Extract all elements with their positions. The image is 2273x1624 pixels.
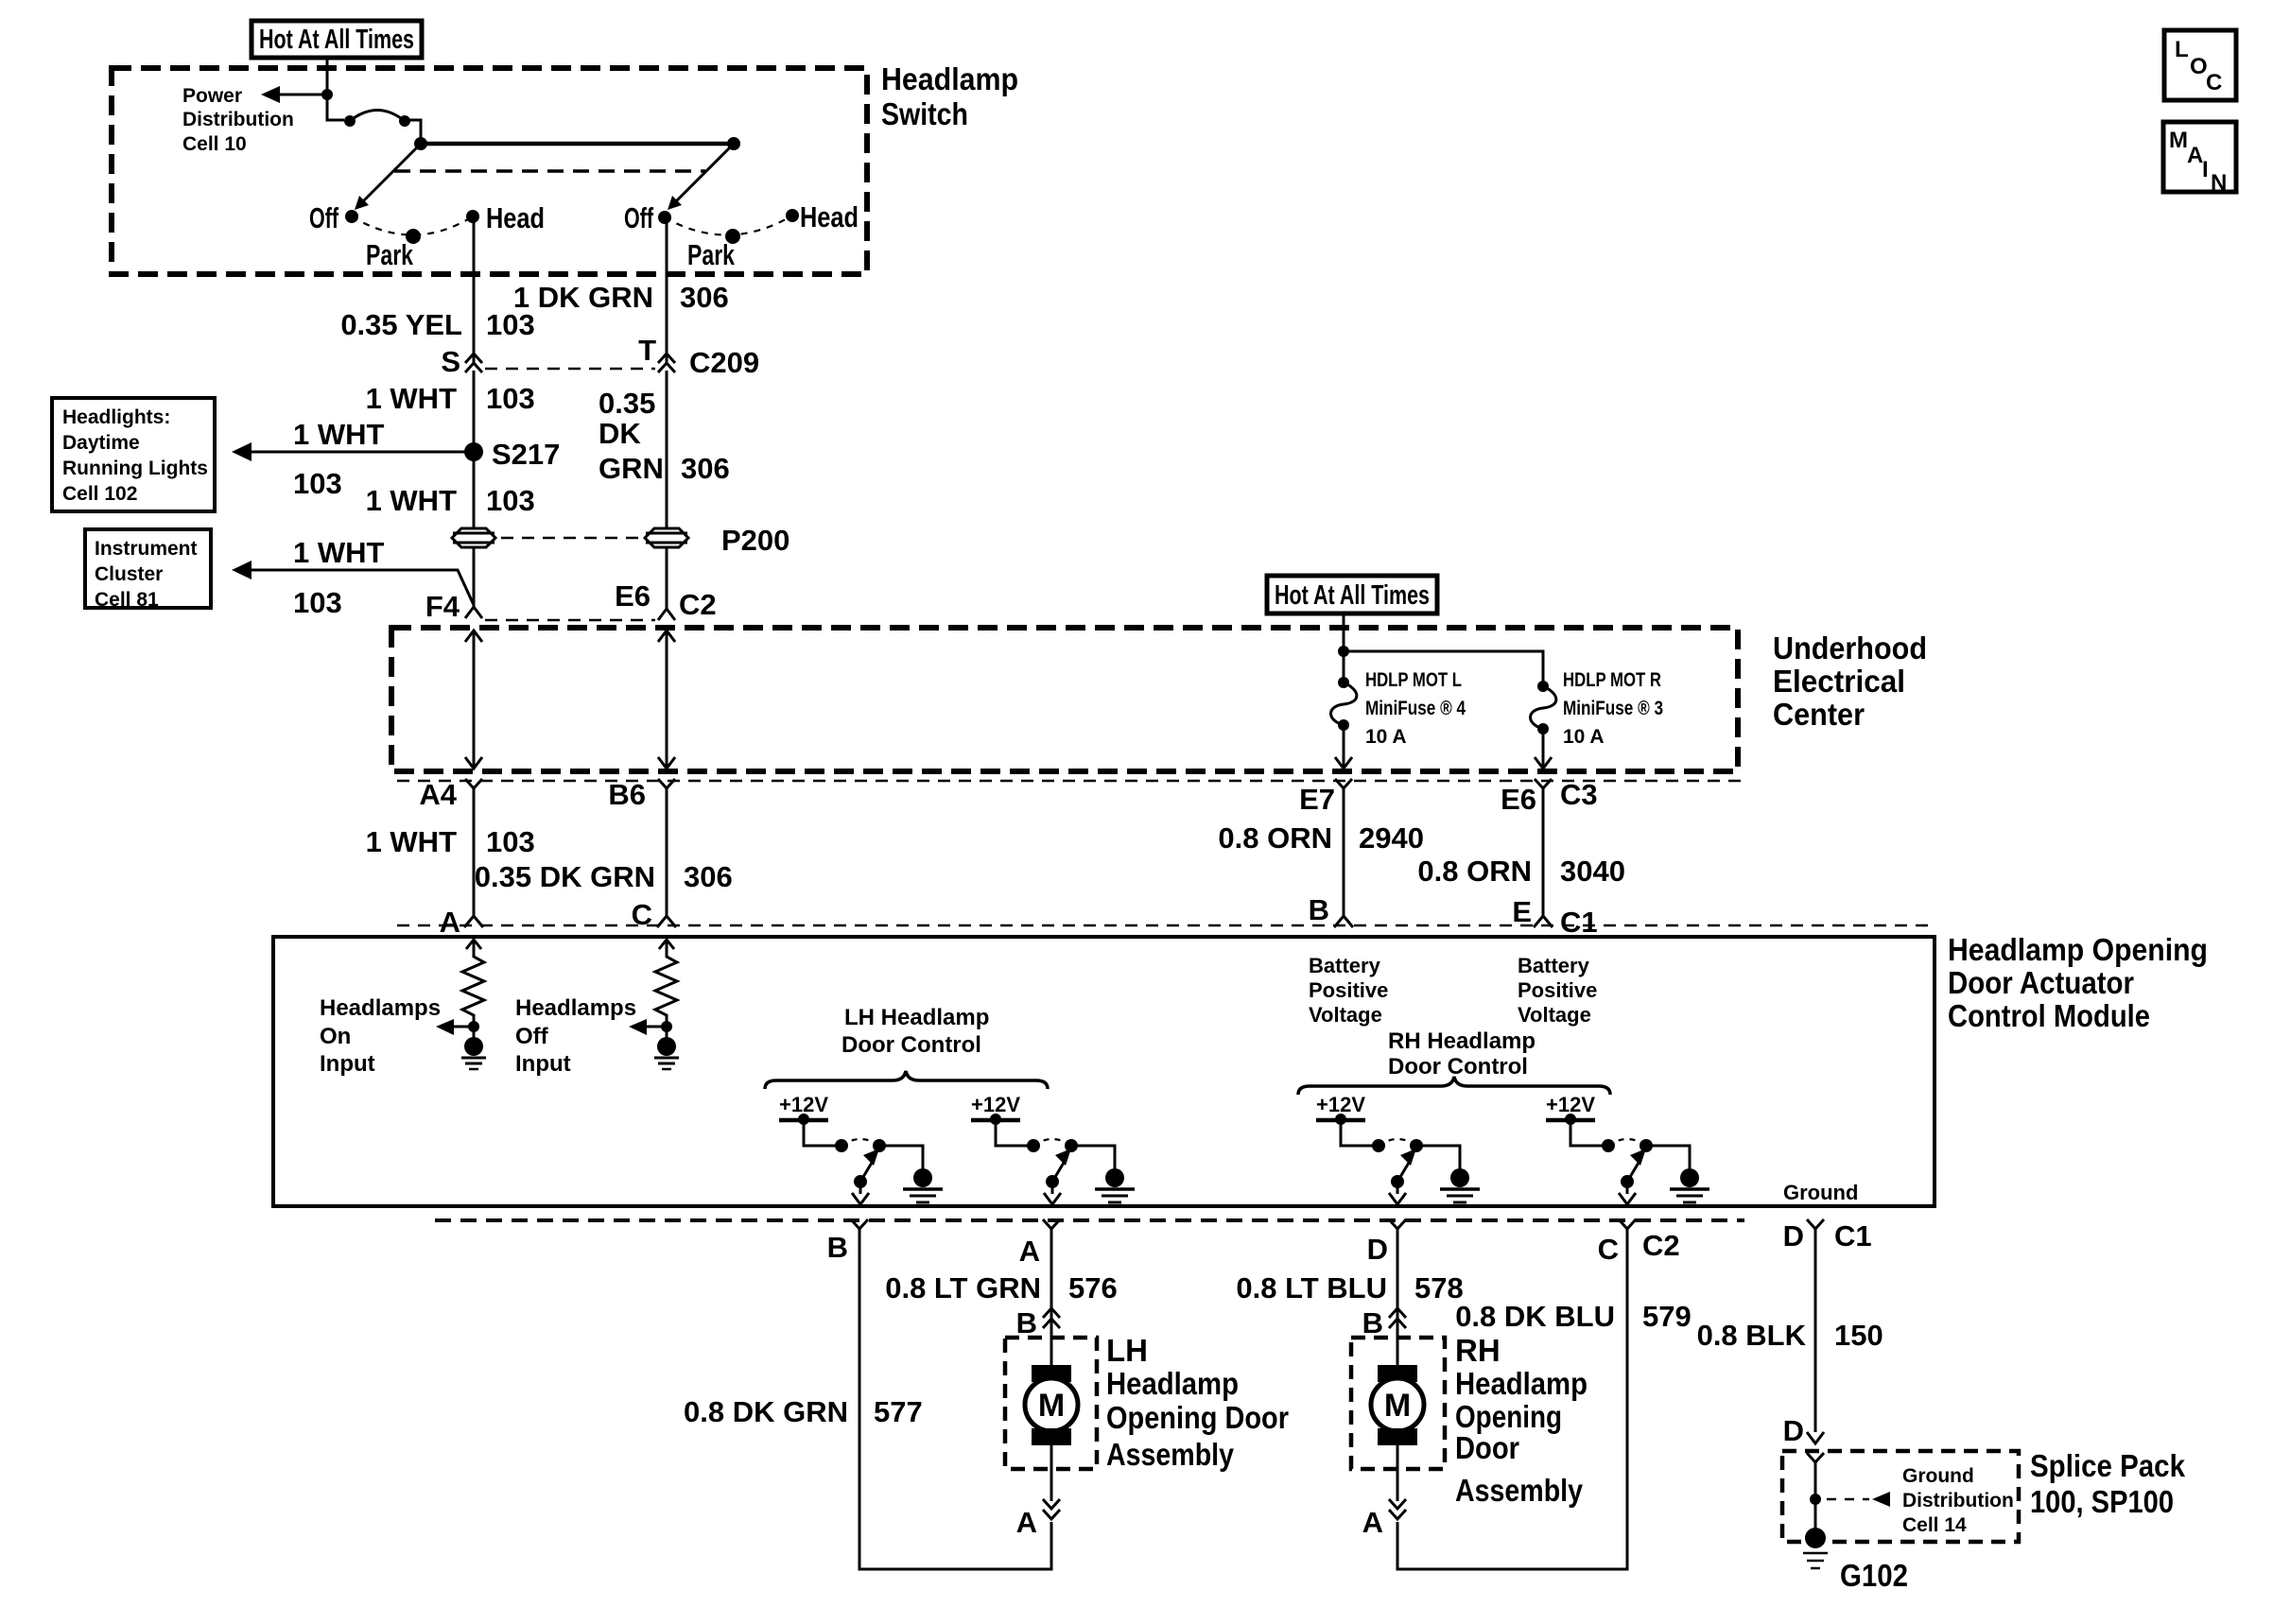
svg-text:+12V: +12V — [971, 1093, 1020, 1116]
svg-text:0.8 ORN: 0.8 ORN — [1417, 855, 1532, 888]
module pin B chevron — [1334, 916, 1353, 927]
svg-text:T: T — [638, 334, 656, 367]
label 0.35 DK GRN 306 (below T) — [599, 387, 730, 485]
svg-text:RH: RH — [1455, 1333, 1501, 1368]
svg-text:1 WHT: 1 WHT — [366, 825, 458, 858]
svg-text:150: 150 — [1834, 1319, 1883, 1352]
svg-text:Splice Pack: Splice Pack — [2030, 1448, 2186, 1483]
svg-text:B: B — [1016, 1306, 1037, 1339]
svg-text:C1: C1 — [1834, 1219, 1872, 1253]
module pin C bottom chevron — [1619, 1219, 1636, 1238]
wire 306 from B6 to module pin C — [666, 799, 668, 917]
svg-text:0.8 ORN: 0.8 ORN — [1218, 821, 1332, 855]
module pin B bottom chevron — [851, 1219, 868, 1238]
svg-text:N: N — [2211, 170, 2227, 196]
label 0.8 DK GRN 577 — [684, 1395, 923, 1428]
underhood electrical center dashed enclosure — [391, 628, 1738, 771]
svg-text:103: 103 — [486, 308, 535, 341]
wire 103 from left switch Head down to connector C209 pin S — [473, 219, 476, 362]
mechanical link dashed line between wipers — [394, 169, 705, 173]
node: splice junction SP100 — [1810, 1494, 1821, 1505]
svg-text:A: A — [1019, 1235, 1040, 1268]
module pin E chevron — [1534, 916, 1553, 927]
svg-text:Voltage: Voltage — [1309, 1003, 1382, 1027]
node: power feed junction — [321, 89, 333, 100]
svg-text:Door Actuator: Door Actuator — [1948, 965, 2134, 1000]
svg-text:Headlamp: Headlamp — [881, 61, 1018, 96]
svg-text:Input: Input — [320, 1051, 375, 1077]
svg-text:LH: LH — [1106, 1333, 1148, 1368]
brace RH door control — [1298, 1077, 1610, 1095]
resistor (headlamps on input pull-up) — [462, 940, 484, 1027]
svg-text:+12V: +12V — [1316, 1093, 1365, 1116]
dashed connector line C209 — [485, 368, 655, 371]
svg-text:A: A — [2187, 143, 2203, 168]
svg-text:Headlights:: Headlights: — [62, 406, 170, 428]
destination box Instrument Cluster Cell 81 — [85, 529, 211, 611]
right switch wiper arm with arrowhead — [668, 144, 734, 210]
svg-text:Headlamp: Headlamp — [1455, 1366, 1588, 1401]
svg-text:P200: P200 — [721, 524, 789, 557]
svg-text:103: 103 — [486, 382, 535, 415]
svg-text:0.35 DK GRN: 0.35 DK GRN — [475, 860, 655, 893]
wire 2940 from E7 to module pin B — [1343, 799, 1345, 917]
dashed arrow to Ground Distribution Cell 14 — [1827, 1492, 1890, 1507]
svg-text:3040: 3040 — [1560, 855, 1625, 888]
svg-text:DK: DK — [599, 417, 641, 450]
label Headlamp Opening Door Actuator Control Module — [1948, 932, 2208, 1033]
wire arrow from S217 to Headlights DRL — [232, 442, 474, 461]
LH motor pin B double chevron — [1043, 1308, 1060, 1328]
page marker box MAIN — [2163, 122, 2236, 196]
wire 306 from right switch Off down to connector C209 pin T — [666, 220, 668, 362]
left switch wiper arm with arrowhead — [355, 144, 421, 210]
wire from Hot At All Times into headlamp switch — [326, 58, 329, 95]
label RH Headlamp Door Control — [1388, 1028, 1536, 1080]
svg-text:103: 103 — [486, 825, 535, 858]
svg-text:C: C — [632, 898, 652, 931]
connector C2 pin F4 chevron — [465, 607, 482, 618]
svg-text:Head: Head — [486, 201, 545, 234]
wire from LH motor bottom to loop — [1050, 1445, 1053, 1501]
label 0.8 DK BLU 579 — [1455, 1300, 1692, 1333]
svg-text:Headlamps: Headlamps — [515, 995, 636, 1021]
resistor (headlamps off input pull-up) — [655, 940, 677, 1027]
motor M (LH headlamp door) — [1025, 1365, 1078, 1445]
wire from RH motor bottom to loop — [1397, 1445, 1399, 1501]
svg-text:0.8 DK GRN: 0.8 DK GRN — [684, 1395, 848, 1428]
module pin A chevron — [464, 916, 483, 927]
svg-text:Hot At All Times: Hot At All Times — [1275, 580, 1430, 611]
connector C3 dashed line — [397, 780, 1749, 783]
svg-text:1 WHT: 1 WHT — [366, 382, 458, 415]
wire arrow Headlamps Off Input — [629, 1019, 667, 1035]
svg-text:Control Module: Control Module — [1948, 998, 2150, 1033]
label Splice Pack 100, SP100 — [2030, 1448, 2186, 1519]
svg-text:579: 579 — [1642, 1300, 1692, 1333]
node: headlamps on input tap — [468, 1021, 479, 1032]
switch contact (closed breaker) of headlamp switch — [344, 111, 410, 128]
fuse HDLP MOT R MiniFuse 3 10A — [1531, 681, 1556, 734]
svg-text:10 A: 10 A — [1563, 726, 1605, 748]
connector C3 pin E6 — [1535, 779, 1552, 799]
wire feed to right fuse — [1344, 651, 1543, 686]
headlamp opening door actuator control module box — [273, 937, 1935, 1206]
svg-text:Opening Door: Opening Door — [1106, 1400, 1289, 1435]
pass-through grommet P200 (right, circuit 306) — [645, 528, 688, 547]
svg-text:306: 306 — [681, 452, 730, 485]
page marker box LOC — [2164, 30, 2236, 100]
module pin C entry arrow — [659, 940, 674, 949]
svg-text:Positive: Positive — [1309, 978, 1388, 1002]
svg-text:HDLP MOT L: HDLP MOT L — [1365, 669, 1462, 691]
svg-text:Distribution: Distribution — [1902, 1490, 2014, 1512]
connector C2 pin E6 chevron — [658, 609, 675, 620]
svg-text:On: On — [320, 1024, 351, 1049]
module pin D ground bottom chevron — [1807, 1219, 1824, 1238]
splice S217 — [464, 442, 483, 461]
svg-text:M: M — [1038, 1388, 1065, 1424]
svg-text:C2: C2 — [679, 588, 717, 621]
svg-text:Input: Input — [515, 1051, 571, 1077]
svg-text:Instrument: Instrument — [95, 538, 198, 560]
wire from Hot At All Times into UEC — [1343, 613, 1345, 682]
label LH Headlamp Door Control — [842, 1005, 989, 1058]
fuse HDLP MOT L MiniFuse 4 10A — [1331, 677, 1357, 731]
svg-text:Battery: Battery — [1309, 954, 1381, 977]
node: fuse feed junction — [1338, 646, 1349, 657]
svg-text:Center: Center — [1773, 697, 1865, 732]
svg-text:A: A — [440, 906, 460, 939]
svg-text:C: C — [2206, 70, 2222, 95]
svg-text:576: 576 — [1068, 1271, 1118, 1304]
bus wire between left and right wiper feeds — [421, 142, 734, 147]
node: left wiper feed — [414, 137, 427, 150]
wire 103 through UEC with entry/exit arrows — [465, 631, 482, 769]
svg-text:1 WHT: 1 WHT — [293, 418, 385, 451]
label Headlamps On Input — [320, 995, 441, 1077]
connector C209 pin T double chevron — [658, 354, 675, 372]
svg-text:Door Control: Door Control — [842, 1032, 981, 1058]
svg-text:E6: E6 — [1501, 783, 1536, 816]
svg-text:Ground: Ground — [1902, 1465, 1974, 1487]
RH headlamp opening door assembly dashed box — [1351, 1338, 1445, 1469]
label RH Headlamp Opening Door Assembly — [1455, 1333, 1588, 1508]
svg-text:Positive: Positive — [1518, 978, 1597, 1002]
headlamp switch dashed enclosure — [112, 68, 867, 274]
dashed connector line C2 — [485, 619, 655, 622]
right switch contact Head — [786, 209, 799, 222]
wire 577 from module pin B down and around to LH motor pin A — [859, 1238, 1051, 1569]
svg-text:Distribution: Distribution — [182, 109, 294, 130]
wire from junction to switch contact — [327, 95, 344, 120]
svg-text:D: D — [1783, 1414, 1804, 1447]
svg-text:Running Lights: Running Lights — [62, 458, 208, 479]
label Battery Positive Voltage (pin B) — [1309, 954, 1388, 1027]
RH door driver 2 (+12V switch, output C) — [1546, 1093, 1709, 1204]
node: headlamps off input tap — [661, 1021, 672, 1032]
power source box "Hot At All Times" (left) — [252, 21, 422, 58]
svg-text:E6: E6 — [615, 579, 651, 613]
wire 576 from module pin A down to LH motor pin B — [1050, 1238, 1053, 1365]
wire from S217 to P200 — [473, 452, 476, 527]
LH door driver 1 (+12V switch, output B) — [779, 1093, 943, 1204]
wire arrow Headlamps On Input — [436, 1019, 474, 1035]
label Headlamp Switch — [881, 61, 1018, 131]
RH motor pin A double chevron — [1389, 1499, 1406, 1519]
svg-text:Door: Door — [1455, 1430, 1519, 1465]
svg-text:Opening: Opening — [1455, 1399, 1562, 1434]
svg-text:Off: Off — [309, 201, 338, 234]
dashed throw arc of left switch — [352, 216, 473, 235]
svg-text:Voltage: Voltage — [1518, 1003, 1591, 1027]
svg-text:1 WHT: 1 WHT — [366, 484, 458, 517]
wire 579 from module pin C down and around to RH motor pin A — [1397, 1238, 1627, 1569]
svg-text:2940: 2940 — [1359, 821, 1424, 855]
label Battery Positive Voltage (pin E) — [1518, 954, 1597, 1027]
module pin A entry arrow — [466, 940, 481, 949]
wire 306 from T down to P200 — [666, 371, 668, 528]
LH headlamp opening door assembly dashed box — [1005, 1338, 1097, 1469]
svg-text:Assembly: Assembly — [1106, 1437, 1235, 1472]
svg-text:103: 103 — [293, 467, 342, 500]
connector C209 pin S double chevron — [465, 354, 482, 372]
node: right wiper feed — [727, 137, 740, 150]
svg-text:E: E — [1512, 895, 1532, 928]
svg-text:Cell 14: Cell 14 — [1902, 1514, 1967, 1536]
svg-text:B: B — [827, 1231, 848, 1264]
module pin D bottom chevron — [1389, 1219, 1406, 1238]
svg-text:Headlamps: Headlamps — [320, 995, 441, 1021]
connector C1/C2 dashed line at module top — [397, 924, 1929, 927]
svg-text:Cell 102: Cell 102 — [62, 483, 137, 505]
svg-text:A: A — [1362, 1506, 1383, 1539]
svg-text:Headlamp: Headlamp — [1106, 1366, 1239, 1401]
dashed throw arc of right switch — [665, 216, 792, 235]
svg-text:HDLP MOT R: HDLP MOT R — [1563, 669, 1661, 691]
svg-text:F4: F4 — [425, 590, 460, 623]
label Ground Distribution Cell 14 — [1902, 1465, 2014, 1536]
label 0.8 BLK 150 — [1697, 1319, 1883, 1352]
label Underhood Electrical Center — [1773, 631, 1927, 732]
svg-text:Park: Park — [366, 238, 414, 271]
LH door driver 2 (+12V switch, output A) — [971, 1093, 1135, 1204]
svg-text:GRN: GRN — [599, 452, 664, 485]
svg-text:0.35: 0.35 — [599, 387, 655, 420]
wire arrow from circuit 103 to Instrument Cluster — [232, 561, 474, 605]
svg-text:Ground: Ground — [1783, 1181, 1858, 1204]
wire from contact to wiper feed node — [405, 120, 421, 144]
svg-text:103: 103 — [293, 586, 342, 619]
svg-text:Cell 81: Cell 81 — [95, 589, 159, 611]
svg-text:Off: Off — [515, 1024, 549, 1049]
motor M (RH headlamp door) — [1371, 1365, 1424, 1445]
svg-text:G102: G102 — [1840, 1558, 1908, 1593]
svg-text:Off: Off — [624, 201, 653, 234]
svg-text:306: 306 — [680, 281, 729, 314]
svg-text:Battery: Battery — [1518, 954, 1590, 977]
label HDLP MOT R MiniFuse 3 10 A — [1563, 669, 1663, 748]
label 1 WHT 103 (above P200) — [366, 484, 535, 517]
svg-text:Headlamp Opening: Headlamp Opening — [1948, 932, 2208, 967]
RH motor pin B double chevron — [1389, 1308, 1406, 1328]
wire 150 from module pin D to splice pack — [1814, 1238, 1817, 1432]
svg-text:Head: Head — [800, 200, 859, 233]
left switch contact Head — [466, 210, 479, 223]
left switch contact Park — [406, 229, 421, 244]
label 1 DK GRN 306 — [513, 281, 729, 314]
label 0.35 DK GRN 306 (above module) — [475, 860, 733, 893]
dashed link of P200 — [501, 537, 641, 540]
svg-text:306: 306 — [684, 860, 733, 893]
svg-text:C: C — [1598, 1233, 1619, 1266]
svg-text:MiniFuse ® 4: MiniFuse ® 4 — [1365, 698, 1466, 719]
wire inside splice pack — [1814, 1462, 1817, 1529]
ground (headlamps off input) — [654, 1027, 679, 1069]
svg-text:M: M — [1384, 1388, 1411, 1424]
svg-text:Door Control: Door Control — [1388, 1054, 1528, 1080]
right switch contact Off — [658, 211, 671, 224]
brace LH door control — [765, 1071, 1048, 1089]
svg-text:S: S — [441, 345, 460, 378]
LH motor pin A double chevron — [1043, 1499, 1060, 1519]
wire from left fuse to UEC exit arrow — [1335, 725, 1352, 769]
wire 103 from A4 to module pin A — [473, 799, 476, 917]
label 0.8 ORN 2940 — [1218, 821, 1424, 855]
module pin C chevron — [657, 916, 676, 927]
svg-text:Switch: Switch — [881, 96, 968, 131]
svg-text:LH Headlamp: LH Headlamp — [844, 1005, 989, 1030]
ground (headlamps on input) — [461, 1027, 486, 1069]
connector C2 dashed line at module bottom — [435, 1218, 1744, 1222]
left switch contact Off — [345, 210, 358, 223]
svg-text:L: L — [2175, 37, 2189, 62]
wire arrow to Power Distribution — [261, 86, 327, 103]
label HDLP MOT L MiniFuse 4 10 A — [1365, 669, 1466, 748]
label LH Headlamp Opening Door Assembly — [1106, 1333, 1289, 1472]
svg-text:C209: C209 — [689, 346, 759, 379]
svg-text:0.35 YEL: 0.35 YEL — [340, 308, 462, 341]
svg-text:Cell 10: Cell 10 — [182, 133, 247, 155]
wire 306 from P200 down to E6 — [666, 548, 668, 609]
destination box Headlights: Daytime Running Lights Cell 102 — [52, 398, 215, 511]
wire from right fuse to UEC exit arrow — [1535, 729, 1552, 769]
svg-text:577: 577 — [874, 1395, 923, 1428]
label 0.8 ORN 3040 — [1417, 855, 1625, 888]
ground G102 — [1803, 1528, 1828, 1568]
svg-text:Cluster: Cluster — [95, 563, 163, 585]
connector C3 pin A4 — [465, 779, 482, 799]
svg-text:B: B — [1309, 893, 1329, 926]
svg-text:S217: S217 — [492, 438, 560, 471]
svg-text:1 WHT: 1 WHT — [293, 536, 385, 569]
label 1 WHT 103 (below S) — [366, 382, 535, 415]
splice pack entry chevron — [1807, 1453, 1824, 1462]
module pin A bottom chevron — [1043, 1219, 1060, 1238]
svg-text:M: M — [2169, 128, 2188, 153]
svg-text:0.8 LT GRN: 0.8 LT GRN — [885, 1271, 1041, 1304]
svg-text:D: D — [1367, 1233, 1388, 1266]
label 0.8 LT BLU 578 — [1236, 1271, 1463, 1304]
svg-text:A: A — [1016, 1506, 1037, 1539]
pass-through grommet P200 (left, circuit 103) — [452, 528, 495, 547]
svg-text:10 A: 10 A — [1365, 726, 1407, 748]
label 1 WHT 103 (above module) — [366, 825, 535, 858]
svg-text:I: I — [2202, 157, 2209, 182]
power source box "Hot At All Times" (right) — [1267, 576, 1437, 613]
right switch contact Park — [725, 229, 740, 244]
wire 1 WHT 103 from S to S217 — [473, 371, 476, 452]
svg-text:O: O — [2190, 54, 2208, 79]
wire from P200 down to F4 — [473, 548, 476, 607]
svg-text:E7: E7 — [1299, 783, 1335, 816]
svg-text:0.8 LT BLU: 0.8 LT BLU — [1236, 1271, 1387, 1304]
svg-text:0.8 DK BLU: 0.8 DK BLU — [1455, 1300, 1615, 1333]
svg-text:Daytime: Daytime — [62, 432, 140, 454]
connector C3 pin B6 — [658, 779, 675, 799]
svg-text:C1: C1 — [1560, 906, 1598, 939]
svg-text:100, SP100: 100, SP100 — [2030, 1484, 2174, 1519]
svg-text:+12V: +12V — [779, 1093, 828, 1116]
connector C3 pin E7 — [1335, 779, 1352, 799]
wire 306 through UEC with entry/exit arrows — [658, 631, 675, 769]
svg-text:Assembly: Assembly — [1455, 1473, 1584, 1508]
svg-text:D: D — [1783, 1219, 1804, 1253]
svg-text:A4: A4 — [419, 778, 457, 811]
arrow into splice pack — [1807, 1432, 1824, 1443]
svg-text:Electrical: Electrical — [1773, 664, 1905, 699]
svg-text:C2: C2 — [1642, 1229, 1680, 1262]
svg-text:MiniFuse ® 3: MiniFuse ® 3 — [1563, 698, 1663, 719]
wire 578 from module pin D down to RH motor pin B — [1397, 1238, 1399, 1365]
svg-text:C3: C3 — [1560, 778, 1598, 811]
label Headlamps Off Input — [515, 995, 636, 1077]
splice pack dashed box — [1782, 1451, 2019, 1542]
svg-text:Hot At All Times: Hot At All Times — [259, 25, 414, 55]
svg-text:Park: Park — [687, 238, 736, 271]
svg-text:0.8 BLK: 0.8 BLK — [1697, 1319, 1807, 1352]
label Power Distribution Cell 10 — [182, 85, 294, 155]
label 0.35 YEL 103 — [340, 308, 534, 341]
svg-text:B: B — [1362, 1306, 1383, 1339]
svg-text:Underhood: Underhood — [1773, 631, 1927, 665]
svg-text:B6: B6 — [608, 778, 646, 811]
svg-text:+12V: +12V — [1546, 1093, 1595, 1116]
RH door driver 1 (+12V switch, output D) — [1316, 1093, 1480, 1204]
wire 3040 from E6 to module pin E — [1542, 799, 1545, 917]
svg-text:103: 103 — [486, 484, 535, 517]
label 0.8 LT GRN 576 — [885, 1271, 1118, 1304]
svg-text:Power: Power — [182, 85, 242, 107]
svg-text:RH Headlamp: RH Headlamp — [1388, 1028, 1536, 1054]
